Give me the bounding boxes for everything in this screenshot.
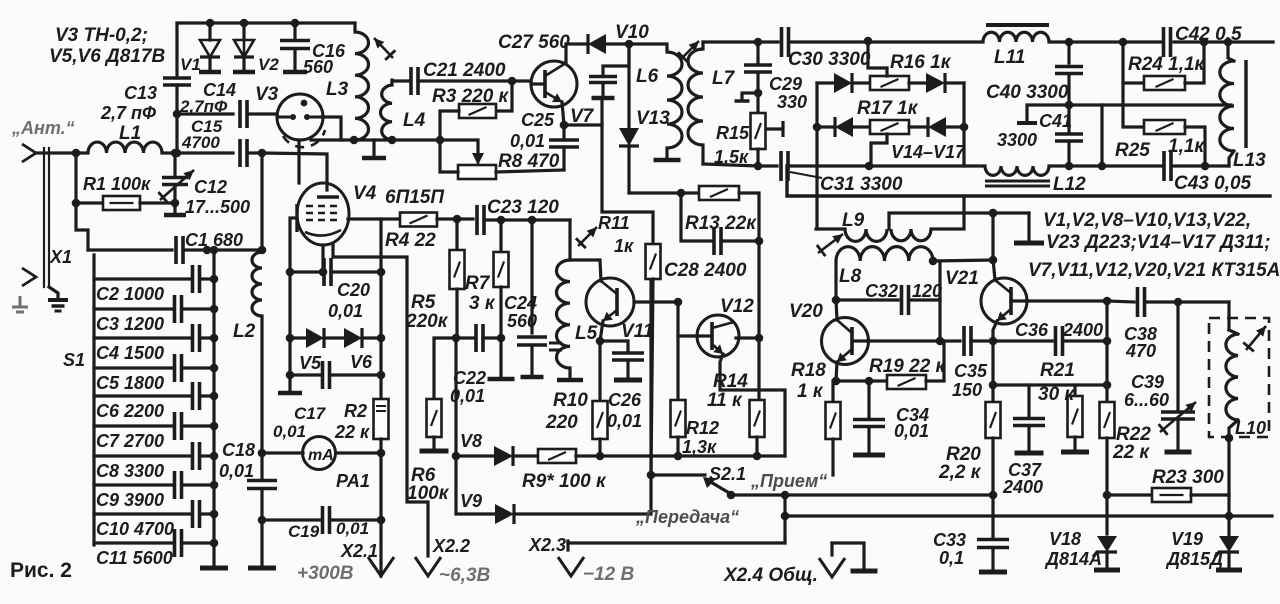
capacitor C13 (175, 23, 178, 78)
capacitor C43 (1164, 151, 1171, 181)
svg-text:2400: 2400 (1002, 477, 1043, 497)
svg-text:150: 150 (952, 380, 982, 400)
svg-text:L9: L9 (842, 210, 865, 231)
svg-text:R11: R11 (598, 213, 630, 233)
svg-text:0,01: 0,01 (273, 422, 306, 441)
svg-text:R18: R18 (791, 360, 826, 381)
svg-text:V18: V18 (1049, 529, 1081, 549)
svg-text:С17: С17 (294, 404, 327, 423)
svg-text:С26: С26 (608, 390, 642, 410)
resistor R3 (496, 81, 512, 111)
capacitor C1 (88, 248, 172, 251)
wire X2.3 riser (783, 495, 786, 543)
wire V11 emitter node (600, 321, 603, 341)
switch S2.1 arm (709, 481, 731, 494)
svg-text:С33: С33 (933, 530, 966, 550)
svg-text:560: 560 (507, 311, 537, 331)
wire L2 column (260, 153, 263, 252)
capacitor C23 (477, 205, 484, 235)
wire C14 row (177, 112, 233, 115)
resistor R21 (1073, 385, 1076, 396)
wire top bus right (703, 40, 778, 43)
svg-text:V7,V11,V12,V20,V21 КТ315А: V7,V11,V12,V20,V21 КТ315А (1028, 260, 1280, 281)
svg-text:РА1: РА1 (336, 471, 370, 491)
resistor R13 (699, 186, 739, 200)
wire V3 right electrode (322, 117, 341, 140)
transistor V7 (531, 61, 577, 107)
svg-text:С29: С29 (769, 74, 802, 94)
capacitor C31 (781, 151, 788, 181)
svg-text:0,01: 0,01 (894, 421, 929, 441)
capacitor С6 (94, 394, 192, 397)
capacitor С9 (94, 483, 174, 486)
svg-text:R17 1к: R17 1к (857, 98, 919, 119)
capacitor C17 (286, 371, 295, 380)
tube V4 (297, 183, 349, 245)
resistor R16 (870, 76, 909, 90)
wire L1 junction to C15 (173, 149, 182, 158)
wire V20 collector (836, 300, 837, 320)
svg-text:L11: L11 (994, 47, 1025, 68)
inductor L8 (836, 247, 933, 261)
wire transmit line y495 (731, 493, 993, 496)
svg-text:L7: L7 (712, 68, 736, 89)
svg-text:220к: 220к (405, 311, 449, 332)
node C13-C14 (173, 110, 182, 119)
inductor L4 (390, 80, 393, 85)
svg-text:6П15П: 6П15П (385, 187, 444, 208)
svg-text:S1: S1 (63, 350, 85, 370)
wire S2.1 contact stub (651, 473, 705, 476)
svg-text:С20: С20 (337, 280, 370, 300)
svg-text:R10: R10 (553, 390, 588, 411)
bus right of bank (212, 250, 215, 566)
capacitor C29 (754, 38, 763, 47)
svg-text:17...500: 17...500 (185, 197, 250, 217)
svg-text:120: 120 (912, 281, 942, 301)
svg-text:L12: L12 (1053, 174, 1086, 195)
wire V21 emitter (993, 321, 997, 341)
capacitor C38 (1107, 301, 1134, 302)
wire V12 base (676, 302, 679, 400)
resistor R9 (513, 454, 538, 457)
svg-text:С12: С12 (194, 177, 227, 197)
svg-text:С24: С24 (504, 293, 537, 313)
svg-text:V20: V20 (789, 301, 823, 322)
capacitor C32 (836, 298, 898, 301)
svg-text:Х2.3: Х2.3 (528, 535, 566, 555)
capacitor С3 (94, 307, 174, 310)
resistor R1 (74, 153, 77, 203)
wire heater to X2.2 (333, 245, 428, 556)
diode V10 (566, 42, 588, 45)
capacitor C35 (964, 326, 971, 356)
svg-text:С3 1200: С3 1200 (96, 314, 164, 334)
svg-text:0,01: 0,01 (219, 461, 254, 481)
svg-text:С23 120: С23 120 (487, 197, 559, 218)
svg-text:С39: С39 (1131, 372, 1164, 392)
svg-text:С19: С19 (288, 522, 320, 541)
ground stub C41 row (1027, 105, 1069, 120)
svg-text:30 к: 30 к (1038, 384, 1075, 405)
svg-text:L4: L4 (403, 110, 426, 131)
wire L8 legs (834, 261, 837, 300)
svg-text:2,7 пФ: 2,7 пФ (100, 103, 156, 123)
svg-text:V5,V6 Д817В: V5,V6 Д817В (49, 46, 165, 67)
svg-text:100к: 100к (407, 483, 450, 504)
svg-text:С41: С41 (1039, 111, 1072, 131)
wire base to y341 (1105, 301, 1108, 341)
svg-text:V2: V2 (258, 55, 279, 74)
svg-text:Рис. 2: Рис. 2 (10, 559, 72, 582)
svg-text:R19 22 к: R19 22 к (869, 356, 947, 377)
svg-text:6...60: 6...60 (1124, 390, 1169, 410)
svg-text:С18: С18 (222, 440, 255, 460)
svg-text:С21 2400: С21 2400 (423, 60, 506, 81)
ground under L4 (372, 140, 375, 156)
svg-text:L6: L6 (636, 66, 659, 87)
diode V15 (926, 73, 945, 93)
connector X1 arrows (22, 144, 36, 162)
ground left bus (278, 391, 302, 396)
svg-text:11 к: 11 к (707, 390, 743, 411)
svg-text:V1,V2,V8–V10,V13,V22,: V1,V2,V8–V10,V13,V22, (1043, 210, 1251, 231)
svg-text:V21: V21 (945, 268, 979, 289)
svg-text:Х2.1: Х2.1 (340, 541, 378, 561)
capacitor C37 (1027, 385, 1030, 416)
capacitor С4 (94, 336, 192, 339)
meter PA1 (262, 451, 303, 454)
svg-text:С5 1800: С5 1800 (96, 373, 164, 393)
inductor L12 (985, 166, 1049, 175)
svg-text:V11: V11 (621, 321, 653, 342)
inductor L9 (816, 227, 845, 230)
inductor L1 (88, 142, 162, 153)
svg-text:С4 1500: С4 1500 (96, 343, 164, 363)
potentiometer R8 (440, 140, 478, 153)
svg-text:С9 3900: С9 3900 (96, 490, 164, 510)
diode ring top row (817, 81, 834, 84)
wire V21 collector riser (993, 213, 995, 280)
diode V6 (324, 336, 344, 339)
wire R5 drop to V8 row (454, 338, 457, 456)
svg-text:С28 2400: С28 2400 (664, 260, 747, 281)
svg-text:V13: V13 (636, 108, 670, 129)
svg-text:1,3к: 1,3к (682, 437, 717, 457)
wire X1 to S1 (76, 203, 88, 250)
diode V17 (928, 117, 946, 137)
svg-text:1к: 1к (614, 236, 634, 256)
svg-text:~6,3В: ~6,3В (439, 565, 491, 586)
capacitor C24 (530, 220, 533, 333)
wire C40 junction to L13 tap (1069, 105, 1102, 166)
inductor L7 (701, 42, 704, 49)
wire thick common line y196 (787, 166, 1270, 196)
svg-text:−12 В: −12 В (583, 564, 635, 585)
stub R15 right (766, 127, 781, 130)
svg-text:С36: С36 (1015, 320, 1049, 340)
capacitor C41 (1067, 105, 1070, 131)
capacitor C30 (782, 27, 789, 57)
wire antenna to L1 (36, 151, 88, 154)
capacitor C20 (286, 268, 295, 277)
wire y341 row (940, 339, 960, 342)
zener V18 (1097, 536, 1117, 552)
capacitor C26 (600, 341, 628, 350)
svg-text:V4: V4 (353, 183, 377, 204)
switch S1 bus (92, 255, 95, 545)
svg-text:V23 Д223;V14–V17 Д311;: V23 Д223;V14–V17 Д311; (1046, 232, 1271, 253)
variable capacitor C39 (1176, 302, 1179, 410)
wire anode row y140 (311, 138, 440, 141)
svg-text:0,01: 0,01 (510, 131, 545, 151)
svg-text:0,01: 0,01 (336, 519, 369, 538)
tap stub L7 (742, 93, 758, 99)
svg-text:V19: V19 (1171, 529, 1203, 549)
diode V1 (206, 19, 215, 28)
svg-text:S2.1: S2.1 (709, 464, 746, 484)
resistor R24 (1123, 42, 1144, 83)
svg-text:R21: R21 (1040, 360, 1075, 381)
wire C31 row (703, 164, 777, 166)
svg-text:0,1: 0,1 (939, 548, 964, 568)
inductor L5 (568, 220, 571, 260)
svg-text:V5: V5 (299, 353, 322, 373)
node grid wire (258, 149, 267, 158)
connector X2.3 (568, 541, 785, 544)
wire L13 tap link (1102, 103, 1231, 106)
ground L9 link (1027, 213, 1030, 240)
svg-text:С13: С13 (124, 83, 157, 103)
svg-text:С32: С32 (865, 281, 898, 301)
svg-text:330: 330 (777, 92, 807, 112)
svg-text:R7: R7 (465, 273, 491, 294)
svg-text:R4 22: R4 22 (385, 230, 436, 251)
svg-text:L2: L2 (233, 321, 256, 342)
svg-text:V8: V8 (460, 431, 482, 451)
svg-text:3 к: 3 к (469, 293, 496, 314)
inductor L10 (1227, 302, 1230, 330)
transistor V11 (586, 278, 634, 326)
capacitor C16 (291, 19, 300, 28)
svg-text:L3: L3 (326, 79, 349, 100)
wire V20 base row (868, 339, 940, 342)
wire V12 emitter to keying (720, 354, 785, 456)
svg-text:Д814А: Д814А (1044, 549, 1102, 569)
capacitor C27 (603, 44, 629, 75)
inductor L3 (353, 23, 356, 32)
connector X2.4 (832, 543, 864, 569)
diode ring bottom row (813, 123, 822, 132)
svg-text:R12: R12 (686, 418, 719, 438)
svg-text:С8 3300: С8 3300 (96, 461, 164, 481)
svg-text:R2: R2 (344, 401, 367, 421)
capacitor C34 (867, 381, 870, 417)
wire V4 anode riser (297, 140, 300, 183)
inductor L2 (252, 252, 262, 316)
tap R17 to C31 row (871, 134, 887, 166)
capacitor C33 (977, 540, 1009, 548)
resistor R12 (671, 400, 686, 437)
svg-text:1,1к: 1,1к (1168, 136, 1205, 157)
svg-text:Х2.2: Х2.2 (432, 536, 470, 556)
svg-text:V12: V12 (720, 296, 754, 317)
svg-text:R9* 100 к: R9* 100 к (522, 471, 607, 492)
wire L9 right to common (931, 196, 964, 229)
wire C23 row (457, 217, 473, 220)
trimmer arrow L3-L4 (374, 38, 393, 58)
diode V5 (286, 334, 295, 343)
capacitor C14 (240, 100, 247, 128)
capacitor C28 (681, 193, 711, 241)
svg-text:1 к: 1 к (797, 381, 824, 402)
resistor R18 (833, 381, 836, 402)
capacitor C42 (1164, 27, 1171, 57)
resistor R22 (1105, 341, 1108, 402)
wire V21 base node (1027, 299, 1107, 302)
svg-text:С40 3300: С40 3300 (986, 82, 1069, 103)
wire L8 right to V21 collector (933, 260, 993, 261)
svg-text:С25: С25 (521, 110, 555, 130)
wire top bus (177, 21, 355, 24)
svg-text:Х1: Х1 (49, 247, 72, 267)
diode V9 (456, 456, 495, 514)
svg-text:L1: L1 (119, 123, 141, 144)
svg-text:V3 ТН-0,2;: V3 ТН-0,2; (55, 25, 148, 46)
capacitor C40 (1067, 42, 1070, 63)
diode V8 (456, 454, 494, 457)
wire tank to base (938, 300, 941, 341)
svg-text:С2 1000: С2 1000 (96, 284, 164, 304)
svg-text:С42 0,5: С42 0,5 (1175, 24, 1242, 45)
svg-text:„Прием“: „Прием“ (750, 471, 827, 491)
svg-text:R15: R15 (716, 123, 750, 143)
capacitor C22 (456, 336, 473, 339)
svg-text:R1 100к: R1 100к (83, 174, 151, 194)
svg-text:R24 1,1к: R24 1,1к (1128, 54, 1206, 75)
wire V7 collector (564, 44, 567, 63)
coil L10 dashed box (1209, 318, 1269, 437)
svg-text:V10: V10 (615, 22, 649, 43)
svg-text:2,7пФ: 2,7пФ (179, 97, 228, 116)
inductor L11 (983, 32, 1049, 42)
svg-text:V3: V3 (255, 84, 279, 105)
svg-text:V9: V9 (460, 491, 482, 511)
wire R13 row (629, 191, 681, 194)
resistor R6 (434, 338, 456, 399)
svg-text:С22: С22 (453, 368, 486, 388)
feeder double line (43, 148, 45, 287)
svg-text:„Ант.“: „Ант.“ (11, 118, 75, 138)
svg-text:0,01: 0,01 (328, 301, 363, 321)
svg-text:С7 2700: С7 2700 (96, 431, 164, 451)
svg-text:R3 220 к: R3 220 к (432, 86, 510, 107)
wire V20 emitter (836, 362, 837, 381)
resistor R7 (499, 220, 502, 252)
svg-text:+300В: +300В (297, 563, 354, 584)
resistor R20 (986, 402, 1001, 438)
capacitor С7 (94, 424, 174, 427)
svg-text:R16 1к: R16 1к (890, 52, 952, 73)
transistor V12 (697, 315, 739, 357)
svg-text:R25: R25 (1115, 140, 1150, 161)
diode V13 (627, 44, 630, 128)
capacitor C18 (247, 481, 277, 489)
transistor V21 (981, 278, 1027, 324)
wire V11 collector to L5 (570, 260, 601, 281)
capacitor С10 (94, 512, 192, 515)
variable capacitor C12 (173, 153, 176, 177)
resistor R17 (870, 120, 909, 134)
svg-text:22 к: 22 к (1112, 442, 1150, 463)
wire common y516 (785, 514, 1272, 517)
svg-text:V1: V1 (180, 55, 201, 74)
wire plate to left bus (290, 218, 297, 390)
capacitor C15 (240, 139, 247, 167)
transistor V20 (822, 318, 869, 365)
svg-text:470: 470 (1125, 341, 1156, 361)
svg-text:220: 220 (545, 412, 578, 433)
resistor R5 (455, 219, 458, 250)
svg-text:С43 0,05: С43 0,05 (1174, 173, 1252, 194)
svg-text:„Передача“: „Передача“ (635, 507, 739, 527)
inductor L13 (1228, 42, 1234, 61)
resistor R10 (598, 341, 601, 401)
capacitor C21 (392, 79, 408, 82)
svg-text:тА: тА (308, 447, 334, 464)
connector X2.2 (415, 557, 441, 576)
wire to V4 grid cap (262, 153, 327, 190)
capacitor С8 (94, 454, 192, 457)
svg-text:С30 3300: С30 3300 (788, 49, 871, 70)
svg-text:С6 2200: С6 2200 (96, 401, 164, 421)
svg-text:V6: V6 (350, 352, 373, 372)
svg-text:С10 4700: С10 4700 (96, 519, 174, 539)
svg-text:V14–V17: V14–V17 (891, 142, 966, 162)
svg-text:22 к: 22 к (334, 422, 370, 442)
resistor R23 (1107, 493, 1152, 496)
diode V2 (240, 19, 249, 28)
capacitor C36 (1056, 326, 1063, 356)
capacitor C19 (262, 518, 322, 521)
capacitor С2 (94, 277, 192, 280)
svg-text:С27 560: С27 560 (498, 32, 570, 53)
wire emitter branch y385 (991, 341, 994, 402)
svg-text:С11 5600: С11 5600 (96, 548, 173, 568)
ring verticals (815, 83, 818, 229)
svg-text:L10: L10 (1235, 418, 1266, 438)
capacitor C25 (562, 102, 564, 125)
svg-text:R23 300: R23 300 (1152, 467, 1224, 488)
ground symbols X1 (49, 287, 58, 299)
resistor R19 (836, 379, 869, 382)
resistor R14 (750, 400, 765, 437)
resistor R15 (756, 93, 759, 113)
svg-text:4700: 4700 (181, 133, 220, 152)
svg-text:Д815Д: Д815Д (1165, 549, 1223, 569)
connector X2.1 (368, 557, 394, 576)
svg-text:С31 3300: С31 3300 (820, 174, 903, 195)
svg-text:R5: R5 (411, 292, 436, 313)
resistor R2 (379, 219, 382, 399)
inductor L6 (629, 44, 667, 52)
wire emitter jog to R11 (564, 125, 653, 244)
svg-text:0,01: 0,01 (607, 411, 642, 431)
svg-text:560: 560 (303, 57, 333, 77)
resistor R25 (1123, 83, 1144, 127)
capacitor С11 (94, 541, 174, 544)
tap R16 (868, 41, 887, 76)
